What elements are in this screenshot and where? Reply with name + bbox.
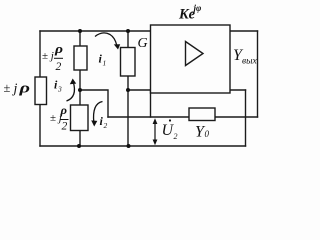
- svg-text:G: G: [138, 36, 148, 51]
- svg-text:2: 2: [104, 121, 108, 130]
- svg-text:1: 1: [103, 59, 107, 68]
- svg-text:± j: ± j: [42, 50, 54, 62]
- svg-text:2: 2: [56, 61, 62, 73]
- svg-text:2: 2: [62, 121, 68, 133]
- svg-text:вых: вых: [242, 57, 258, 67]
- svg-text:2: 2: [174, 132, 178, 141]
- svg-text:3: 3: [57, 85, 62, 94]
- svg-text:ρ: ρ: [59, 103, 67, 117]
- svg-text:ρ: ρ: [54, 41, 64, 56]
- svg-text:jφ: jφ: [192, 3, 202, 13]
- svg-text:±jρ: ±jρ: [4, 81, 31, 97]
- svg-text:0: 0: [205, 129, 210, 139]
